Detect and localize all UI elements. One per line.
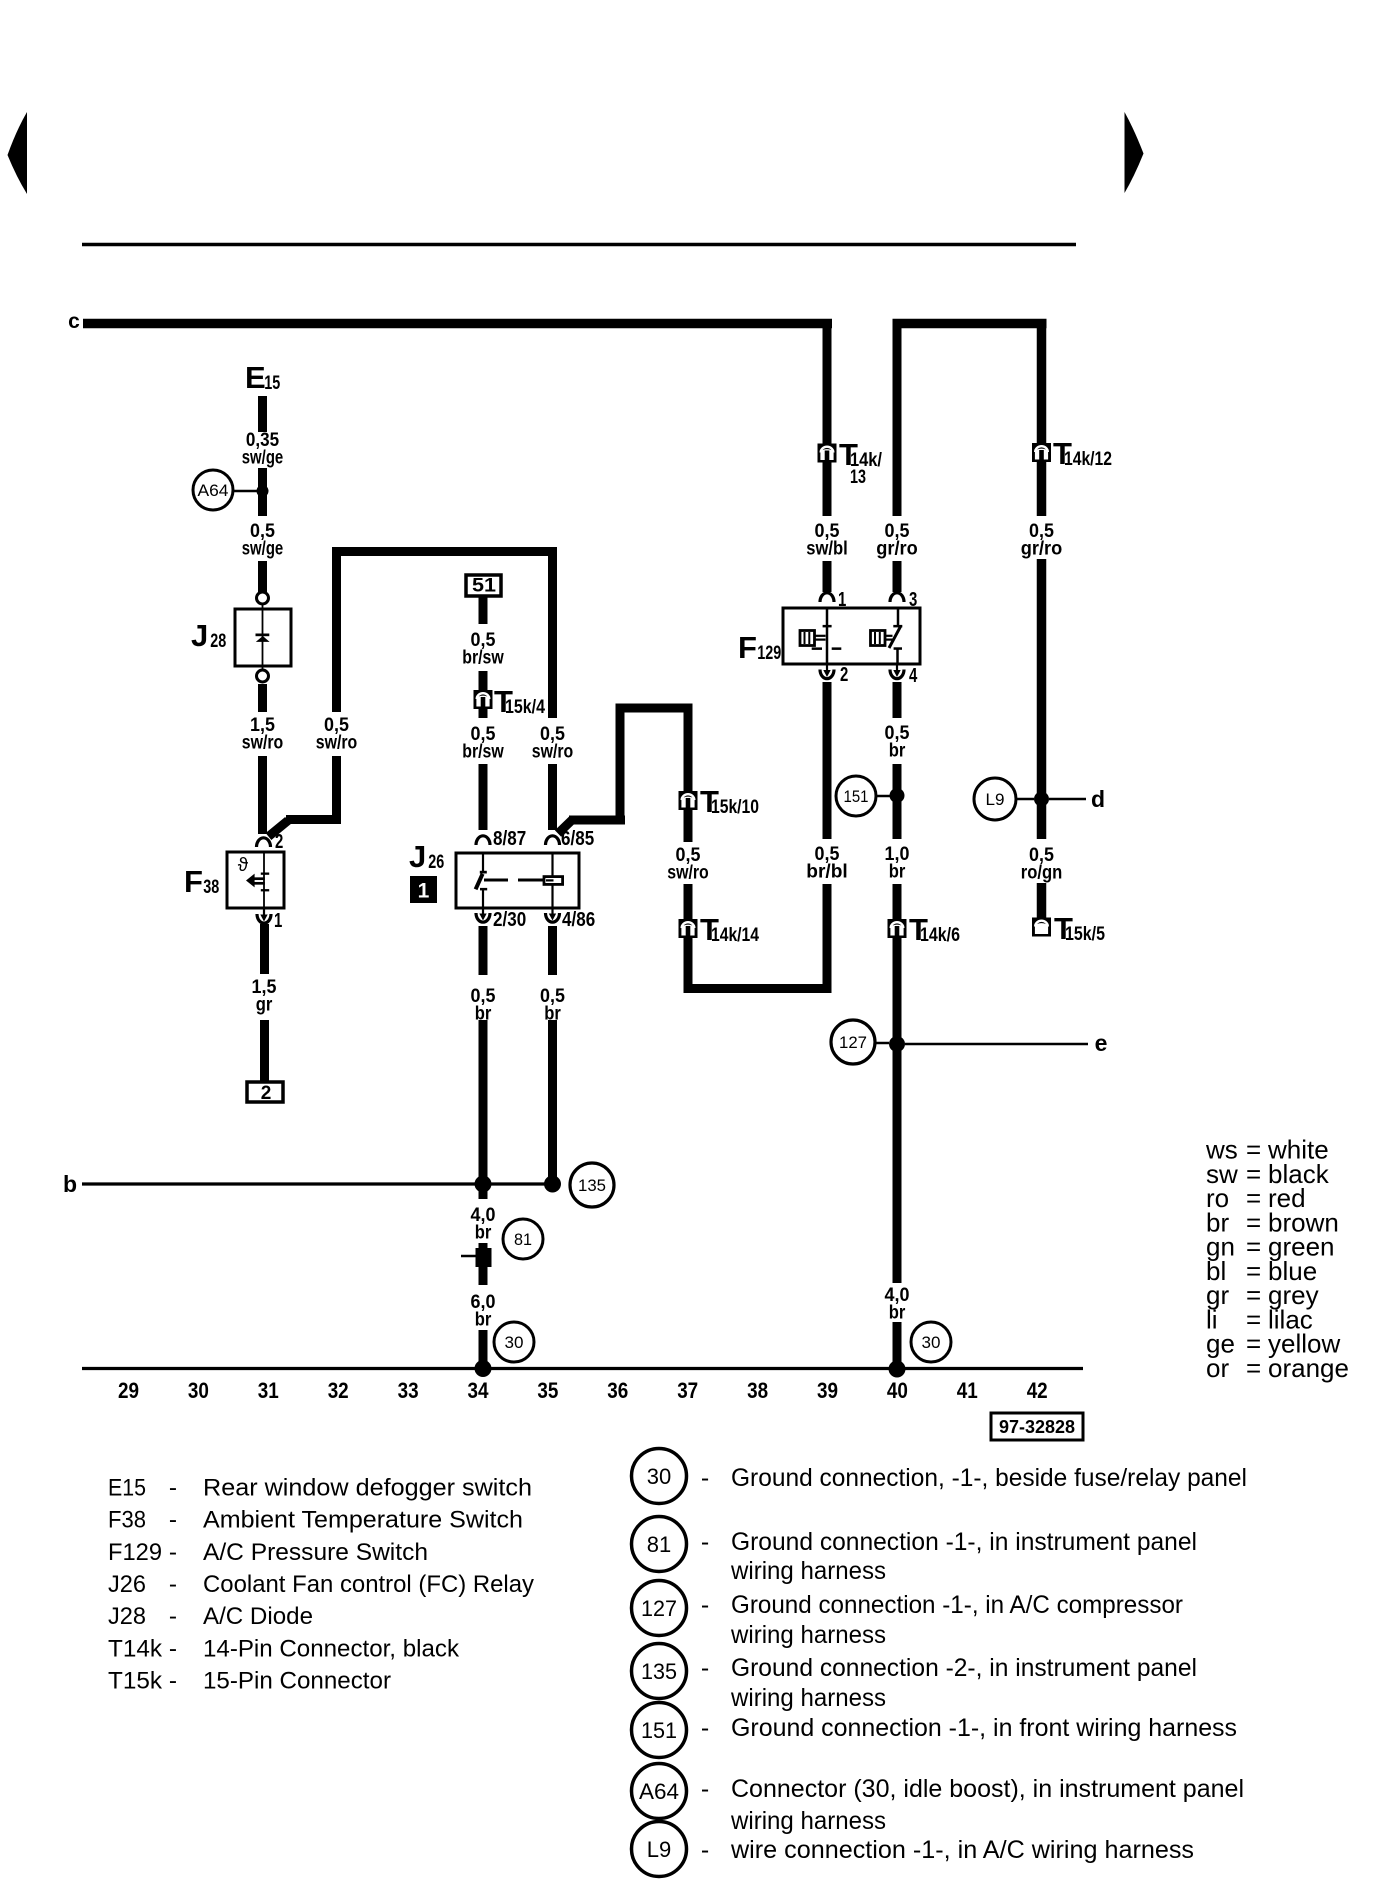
svg-text:129: 129 <box>757 643 781 664</box>
svg-text:A64: A64 <box>639 1779 679 1804</box>
svg-text:br: br <box>889 862 906 883</box>
svg-text:-: - <box>701 1528 709 1556</box>
svg-text:gr/ro: gr/ro <box>1021 539 1063 560</box>
svg-text:Ground connection, -1-, beside: Ground connection, -1-, beside fuse/rela… <box>731 1464 1247 1492</box>
svg-text:br: br <box>889 1303 906 1324</box>
svg-text:sw/ro: sw/ro <box>242 733 284 754</box>
svg-text:sw/ro: sw/ro <box>667 863 709 884</box>
svg-text:wiring harness: wiring harness <box>730 1557 886 1585</box>
svg-text:J: J <box>409 839 426 874</box>
svg-text:-: - <box>169 1635 177 1662</box>
svg-text:b: b <box>63 1171 77 1197</box>
svg-text:T14k: T14k <box>108 1635 163 1662</box>
svg-text:Connector (30, idle boost), in: Connector (30, idle boost), in instrumen… <box>731 1775 1244 1803</box>
svg-text:-: - <box>701 1775 709 1803</box>
svg-text:81: 81 <box>514 1230 532 1249</box>
svg-text:ro/gn: ro/gn <box>1021 863 1063 884</box>
svg-text:E: E <box>245 360 266 395</box>
svg-text:T15k: T15k <box>108 1667 163 1694</box>
svg-text:br: br <box>889 741 906 762</box>
svg-text:-: - <box>701 1714 709 1742</box>
svg-text:-: - <box>169 1571 177 1598</box>
svg-text:30: 30 <box>188 1378 209 1403</box>
svg-text:sw/ge: sw/ge <box>242 448 284 469</box>
svg-text:Ground connection -1-, in inst: Ground connection -1-, in instrument pan… <box>731 1528 1197 1556</box>
svg-text:14k/14: 14k/14 <box>711 925 759 946</box>
svg-text:-: - <box>701 1464 709 1492</box>
svg-text:97-32828: 97-32828 <box>999 1417 1075 1437</box>
svg-text:38: 38 <box>747 1378 768 1403</box>
svg-text:14k/12: 14k/12 <box>1064 449 1112 470</box>
svg-text:15k/10: 15k/10 <box>711 797 759 818</box>
svg-text:gr/ro: gr/ro <box>876 539 918 560</box>
svg-text:2: 2 <box>840 664 848 686</box>
svg-text:15k/4: 15k/4 <box>505 697 545 718</box>
svg-text:-: - <box>169 1507 177 1534</box>
svg-text:14-Pin Connector, black: 14-Pin Connector, black <box>203 1635 460 1662</box>
svg-text:26: 26 <box>428 852 444 873</box>
svg-text:15k/5: 15k/5 <box>1065 924 1105 945</box>
svg-text:J: J <box>191 618 208 653</box>
svg-text:15: 15 <box>264 373 280 394</box>
svg-text:d: d <box>1091 786 1105 812</box>
svg-text:sw/ge: sw/ge <box>242 539 284 560</box>
svg-text:13: 13 <box>850 467 866 488</box>
svg-text:-: - <box>169 1603 177 1630</box>
svg-text:Ambient Temperature Switch: Ambient Temperature Switch <box>203 1507 523 1534</box>
svg-text:L9: L9 <box>986 790 1005 809</box>
svg-text:c: c <box>68 310 80 333</box>
svg-text:38: 38 <box>203 877 219 898</box>
svg-text:F: F <box>738 630 757 665</box>
svg-text:L9: L9 <box>647 1837 671 1862</box>
svg-text:51: 51 <box>472 576 496 597</box>
svg-text:4: 4 <box>909 665 918 687</box>
svg-text:14k/6: 14k/6 <box>920 925 960 946</box>
svg-text:33: 33 <box>398 1378 419 1403</box>
svg-text:-: - <box>701 1836 709 1864</box>
svg-text:br/sw: br/sw <box>462 742 504 763</box>
svg-text:81: 81 <box>647 1532 671 1557</box>
svg-text:=: = <box>1246 1353 1261 1383</box>
svg-text:-: - <box>169 1667 177 1694</box>
svg-text:gr: gr <box>256 995 273 1016</box>
svg-text:wiring harness: wiring harness <box>730 1684 886 1712</box>
svg-text:151: 151 <box>641 1718 677 1743</box>
svg-text:15-Pin Connector: 15-Pin Connector <box>203 1667 391 1694</box>
svg-text:-: - <box>701 1591 709 1619</box>
svg-text:F38: F38 <box>108 1507 146 1534</box>
svg-text:Rear window defogger switch: Rear window defogger switch <box>203 1475 532 1502</box>
svg-text:F: F <box>184 864 203 899</box>
svg-text:br/sw: br/sw <box>462 648 504 669</box>
svg-text:wire connection -1-, in A/C wi: wire connection -1-, in A/C wiring harne… <box>730 1836 1194 1864</box>
svg-text:E15: E15 <box>108 1475 146 1502</box>
svg-text:orange: orange <box>1268 1353 1349 1383</box>
svg-text:1: 1 <box>274 910 282 932</box>
svg-text:Ground connection -1-, in A/C: Ground connection -1-, in A/C compressor <box>731 1591 1183 1619</box>
svg-text:34: 34 <box>468 1378 490 1403</box>
svg-text:Ground connection -1-, in fron: Ground connection -1-, in front wiring h… <box>731 1714 1237 1742</box>
svg-text:-: - <box>701 1654 709 1682</box>
svg-text:sw/ro: sw/ro <box>316 733 358 754</box>
svg-text:J28: J28 <box>108 1603 146 1630</box>
svg-text:39: 39 <box>817 1378 838 1403</box>
svg-text:30: 30 <box>505 1333 524 1352</box>
svg-text:wiring harness: wiring harness <box>730 1807 886 1835</box>
svg-text:40: 40 <box>887 1378 908 1403</box>
svg-text:2: 2 <box>261 1083 272 1104</box>
svg-text:31: 31 <box>258 1378 279 1403</box>
svg-text:4/86: 4/86 <box>562 909 595 931</box>
svg-text:8/87: 8/87 <box>493 828 526 850</box>
svg-text:35: 35 <box>537 1378 558 1403</box>
svg-text:Ground connection -2-, in inst: Ground connection -2-, in instrument pan… <box>731 1654 1197 1682</box>
svg-text:wiring harness: wiring harness <box>730 1621 886 1649</box>
svg-text:A/C Pressure Switch: A/C Pressure Switch <box>203 1539 428 1566</box>
svg-text:127: 127 <box>839 1033 867 1052</box>
svg-text:sw/ro: sw/ro <box>532 742 574 763</box>
svg-text:e: e <box>1095 1030 1108 1056</box>
svg-text:br: br <box>475 1223 492 1244</box>
svg-text:127: 127 <box>641 1596 677 1621</box>
svg-text:ϑ: ϑ <box>238 855 249 876</box>
svg-text:42: 42 <box>1027 1378 1048 1403</box>
svg-text:-: - <box>169 1475 177 1502</box>
svg-text:135: 135 <box>578 1176 606 1195</box>
svg-text:37: 37 <box>677 1378 698 1403</box>
svg-text:32: 32 <box>328 1378 349 1403</box>
svg-text:or: or <box>1206 1353 1229 1383</box>
svg-text:135: 135 <box>641 1659 677 1684</box>
svg-text:30: 30 <box>922 1333 941 1352</box>
svg-text:br/bl: br/bl <box>806 862 848 883</box>
svg-text:28: 28 <box>210 631 226 652</box>
svg-text:J26: J26 <box>108 1571 146 1598</box>
svg-text:36: 36 <box>607 1378 628 1403</box>
svg-text:2/30: 2/30 <box>493 909 526 931</box>
svg-text:A/C Diode: A/C Diode <box>203 1603 313 1630</box>
svg-text:3: 3 <box>909 589 917 611</box>
svg-text:br: br <box>475 1310 492 1331</box>
svg-text:-: - <box>169 1539 177 1566</box>
svg-text:29: 29 <box>118 1378 139 1403</box>
svg-text:Coolant Fan control (FC) Relay: Coolant Fan control (FC) Relay <box>203 1571 535 1598</box>
svg-text:A64: A64 <box>198 482 229 500</box>
svg-text:F129: F129 <box>108 1539 162 1566</box>
svg-text:30: 30 <box>647 1464 671 1489</box>
svg-text:41: 41 <box>957 1378 978 1403</box>
svg-text:151: 151 <box>844 787 869 806</box>
svg-text:1: 1 <box>418 880 430 903</box>
svg-text:sw/bl: sw/bl <box>806 539 848 560</box>
